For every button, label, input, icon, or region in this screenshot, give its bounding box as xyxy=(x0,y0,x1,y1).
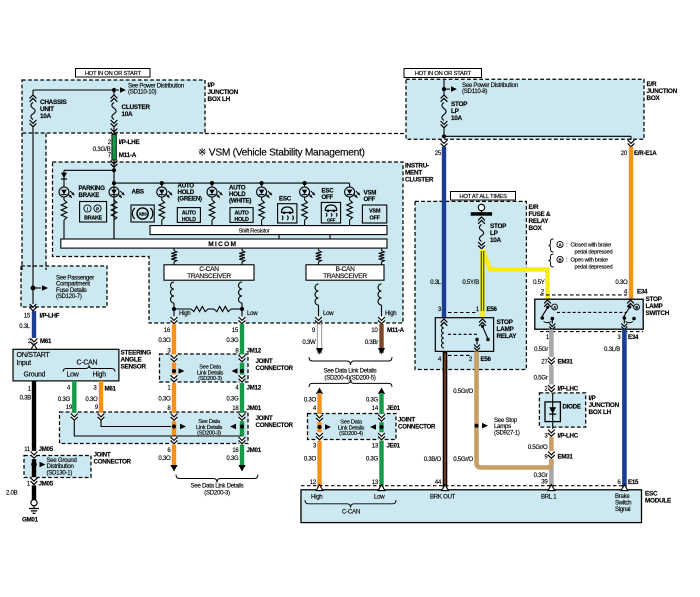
svg-text:(GREEN): (GREEN) xyxy=(178,196,202,203)
svg-text:RELAY: RELAY xyxy=(497,333,518,340)
svg-text:ESC: ESC xyxy=(279,196,292,203)
svg-text:BOX LH: BOX LH xyxy=(589,409,612,416)
svg-text:0.3L/B: 0.3L/B xyxy=(604,346,620,353)
svg-text:JOINT: JOINT xyxy=(256,358,273,365)
svg-text:0.5Y: 0.5Y xyxy=(533,279,545,286)
svg-text:EM31: EM31 xyxy=(558,359,574,366)
svg-text:0.3O: 0.3O xyxy=(85,396,98,403)
svg-text:0.5Gr/O: 0.5Gr/O xyxy=(453,456,473,463)
svg-text:10A: 10A xyxy=(490,237,502,244)
svg-text:Signal: Signal xyxy=(615,506,630,513)
svg-text:CHASSIS: CHASSIS xyxy=(40,99,67,106)
svg-text:0.3Br: 0.3Br xyxy=(365,339,378,346)
svg-text:JE01: JE01 xyxy=(387,443,401,450)
svg-text:AUTO: AUTO xyxy=(234,210,248,216)
svg-text:M I C O M: M I C O M xyxy=(208,241,236,248)
svg-text:BRAKE: BRAKE xyxy=(79,192,100,199)
svg-text:0.3O: 0.3O xyxy=(304,397,317,404)
svg-text:OFF: OFF xyxy=(369,216,380,222)
svg-text:AUTO: AUTO xyxy=(182,210,196,216)
svg-text:(SD120-7): (SD120-7) xyxy=(56,293,82,300)
svg-text:0.3G: 0.3G xyxy=(226,396,239,403)
svg-text:MODULE: MODULE xyxy=(645,498,672,505)
svg-text:HOLD: HOLD xyxy=(182,217,197,223)
svg-text:10: 10 xyxy=(371,327,378,334)
svg-text:27: 27 xyxy=(541,359,548,366)
svg-text:B: B xyxy=(559,257,562,262)
svg-text:14: 14 xyxy=(372,405,379,412)
svg-text:M61: M61 xyxy=(40,338,52,345)
svg-text:20: 20 xyxy=(621,150,628,157)
svg-text:Input: Input xyxy=(17,359,32,367)
svg-text:pedal depressed: pedal depressed xyxy=(575,264,613,270)
svg-text:25: 25 xyxy=(435,150,442,157)
svg-text:GM01: GM01 xyxy=(22,517,39,524)
svg-text:Closed with brake: Closed with brake xyxy=(571,243,612,249)
svg-text:JUNCTION: JUNCTION xyxy=(647,88,678,95)
svg-text:ABS: ABS xyxy=(132,189,144,196)
svg-text:Low: Low xyxy=(247,310,258,317)
svg-text:OFF: OFF xyxy=(327,218,336,223)
svg-text:10A: 10A xyxy=(451,115,463,122)
svg-text:E/R: E/R xyxy=(529,204,539,211)
svg-text:12: 12 xyxy=(310,479,317,486)
svg-text:ABS: ABS xyxy=(139,212,147,217)
svg-text:HOT IN ON OR START: HOT IN ON OR START xyxy=(415,71,472,77)
svg-text:C-CAN: C-CAN xyxy=(342,509,360,516)
svg-text:LP: LP xyxy=(451,108,460,115)
svg-text:E15: E15 xyxy=(628,479,639,486)
svg-text:E56: E56 xyxy=(481,356,492,363)
svg-text:0.3G: 0.3G xyxy=(226,455,239,462)
svg-text:CONNECTOR: CONNECTOR xyxy=(398,424,436,431)
svg-text:JUNCTION: JUNCTION xyxy=(589,402,620,409)
svg-text:(WHITE): (WHITE) xyxy=(229,198,251,205)
svg-text:Ground: Ground xyxy=(24,372,46,379)
svg-text:Shift Resistor: Shift Resistor xyxy=(238,228,269,234)
svg-text:B-CAN: B-CAN xyxy=(335,266,355,273)
svg-text:HOT AT ALL TIMES: HOT AT ALL TIMES xyxy=(459,194,507,200)
svg-text:EM31: EM31 xyxy=(558,454,574,461)
svg-text:HOT IN ON OR START: HOT IN ON OR START xyxy=(85,71,142,77)
svg-text:(SD110-10): (SD110-10) xyxy=(128,89,156,96)
svg-text:10A: 10A xyxy=(40,113,52,120)
svg-text:0.5Gr/O: 0.5Gr/O xyxy=(528,444,548,451)
svg-text:STOP: STOP xyxy=(646,296,663,303)
svg-text:0.3O: 0.3O xyxy=(304,456,317,463)
svg-text:16: 16 xyxy=(232,447,239,454)
svg-text:I/P-LHC: I/P-LHC xyxy=(558,433,579,440)
svg-text:ANGLE: ANGLE xyxy=(121,357,143,364)
svg-text:C-CAN: C-CAN xyxy=(199,266,219,273)
svg-text:※ VSM (Vehicle Stability Manag: ※ VSM (Vehicle Stability Management) xyxy=(198,148,365,159)
svg-text:E34: E34 xyxy=(637,289,648,296)
svg-text:FUSE &: FUSE & xyxy=(529,211,551,218)
svg-text:JM01: JM01 xyxy=(247,405,262,412)
svg-text:ON/START: ON/START xyxy=(17,351,51,359)
svg-text:JM01: JM01 xyxy=(247,447,262,454)
svg-text:15: 15 xyxy=(24,313,31,320)
svg-text:15: 15 xyxy=(232,327,239,334)
svg-text:(SD200-3): (SD200-3) xyxy=(197,431,221,437)
svg-text:LP: LP xyxy=(490,230,499,237)
svg-text:JOINT: JOINT xyxy=(94,452,111,459)
svg-text:TRANSCEIVER: TRANSCEIVER xyxy=(187,273,231,280)
svg-text:0.3G: 0.3G xyxy=(366,397,379,404)
svg-text:13: 13 xyxy=(372,479,379,486)
svg-text:0.3L: 0.3L xyxy=(430,279,442,286)
svg-text:0.3L: 0.3L xyxy=(19,323,31,330)
svg-text:BOX LH: BOX LH xyxy=(208,96,231,103)
svg-text:16: 16 xyxy=(164,327,171,334)
svg-text:STEERING: STEERING xyxy=(121,350,152,357)
svg-text:LAMP: LAMP xyxy=(497,326,515,333)
svg-text:High: High xyxy=(385,310,396,317)
svg-text:I/P-LHF: I/P-LHF xyxy=(40,313,60,320)
svg-text:I/P: I/P xyxy=(208,82,216,89)
svg-text:JM12: JM12 xyxy=(247,348,262,355)
svg-text:0.3O: 0.3O xyxy=(615,279,628,286)
svg-text:Low: Low xyxy=(374,494,385,501)
svg-text:RELAY: RELAY xyxy=(529,218,550,225)
svg-text:44: 44 xyxy=(435,479,442,486)
svg-text:UNIT: UNIT xyxy=(40,106,54,113)
svg-text:CONNECTOR: CONNECTOR xyxy=(256,422,294,429)
svg-text:E/R: E/R xyxy=(647,81,657,88)
svg-text:CONNECTOR: CONNECTOR xyxy=(256,365,294,372)
svg-text:High: High xyxy=(93,372,107,379)
svg-text:M11-A: M11-A xyxy=(119,152,137,159)
svg-text:CLUSTER: CLUSTER xyxy=(122,104,151,111)
svg-text:E34: E34 xyxy=(628,334,639,341)
svg-text:0.3B: 0.3B xyxy=(20,395,32,402)
svg-text:ESC: ESC xyxy=(645,491,658,498)
svg-text:Low: Low xyxy=(323,310,334,317)
svg-text:Open with brake: Open with brake xyxy=(571,258,608,264)
svg-text:High: High xyxy=(311,494,322,501)
svg-text:0.5Gr/O: 0.5Gr/O xyxy=(453,388,473,395)
svg-text:B: B xyxy=(635,305,638,310)
svg-text:0.5Gr: 0.5Gr xyxy=(534,375,548,382)
svg-text:VSM: VSM xyxy=(369,208,381,214)
svg-text:SENSOR: SENSOR xyxy=(121,364,147,371)
svg-text:(SD200-3): (SD200-3) xyxy=(204,490,230,497)
svg-text:C-CAN: C-CAN xyxy=(77,360,98,367)
svg-text:HOLD: HOLD xyxy=(234,217,249,223)
svg-text:TRANSCEIVER: TRANSCEIVER xyxy=(323,273,367,280)
svg-text:P: P xyxy=(96,207,99,212)
svg-text:2.0B: 2.0B xyxy=(6,490,18,497)
svg-text:0.3O: 0.3O xyxy=(158,396,171,403)
svg-text:JE01: JE01 xyxy=(387,405,401,412)
svg-text:OFF: OFF xyxy=(322,194,334,201)
svg-text:JM12: JM12 xyxy=(247,385,262,392)
svg-text:E56: E56 xyxy=(487,306,498,313)
svg-text:See Data Link Details: See Data Link Details xyxy=(191,483,244,490)
svg-text:0.5Y/B: 0.5Y/B xyxy=(462,279,479,286)
svg-text:A: A xyxy=(553,305,556,310)
svg-text:CLUSTER: CLUSTER xyxy=(405,177,434,184)
svg-text:JOINT: JOINT xyxy=(398,417,415,424)
svg-text:MENT: MENT xyxy=(405,170,422,177)
svg-text:BOX: BOX xyxy=(647,95,661,102)
svg-text:(SD927-1): (SD927-1) xyxy=(494,429,520,436)
svg-text:DIODE: DIODE xyxy=(563,404,581,411)
svg-text:0.3O: 0.3O xyxy=(158,337,171,344)
svg-text:BOX: BOX xyxy=(529,225,543,232)
svg-text:pedal depressed: pedal depressed xyxy=(575,249,613,255)
svg-text:(SD110-8): (SD110-8) xyxy=(462,88,487,95)
svg-text:SWITCH: SWITCH xyxy=(646,310,670,317)
svg-text:I/P-LHC: I/P-LHC xyxy=(558,386,579,393)
svg-text:(SD200-3): (SD200-3) xyxy=(198,376,222,382)
svg-text:0.3G: 0.3G xyxy=(226,337,239,344)
svg-text:See Data Link Details: See Data Link Details xyxy=(324,368,377,375)
svg-text:11: 11 xyxy=(24,446,31,453)
svg-text:STOP: STOP xyxy=(497,319,514,326)
svg-text:I/P-LHE: I/P-LHE xyxy=(119,139,141,146)
svg-text:0.3G: 0.3G xyxy=(58,396,71,403)
svg-text:(SD130-1): (SD130-1) xyxy=(47,469,73,476)
svg-text:0.3O: 0.3O xyxy=(158,455,171,462)
svg-text:10A: 10A xyxy=(122,111,134,118)
svg-text:High: High xyxy=(179,310,190,317)
svg-text:I/P: I/P xyxy=(589,395,597,402)
svg-text:(SD200-4): (SD200-4) xyxy=(339,431,363,437)
svg-text:0.5Gr: 0.5Gr xyxy=(534,346,548,353)
svg-text:BRL 1: BRL 1 xyxy=(541,494,557,501)
svg-text:JUNCTION: JUNCTION xyxy=(208,89,239,96)
svg-text:18: 18 xyxy=(232,405,239,412)
svg-text:CONNECTOR: CONNECTOR xyxy=(94,459,132,466)
svg-text:39: 39 xyxy=(541,478,548,485)
svg-text:LAMP: LAMP xyxy=(646,303,664,310)
svg-text:0.3G: 0.3G xyxy=(366,456,379,463)
svg-text:0.3W: 0.3W xyxy=(302,339,316,346)
svg-text:STOP: STOP xyxy=(451,101,468,108)
svg-text:M11-A: M11-A xyxy=(387,327,405,334)
svg-text:19: 19 xyxy=(66,404,73,411)
svg-text:STOP: STOP xyxy=(490,223,507,230)
svg-text:E/R-E1A: E/R-E1A xyxy=(634,150,657,157)
svg-text:JM05: JM05 xyxy=(39,481,54,488)
svg-text:JOINT: JOINT xyxy=(256,415,273,422)
svg-text:13: 13 xyxy=(372,443,379,450)
svg-text:M61: M61 xyxy=(105,386,117,393)
svg-text:INSTRU-: INSTRU- xyxy=(405,163,429,170)
svg-text:0.3B/O: 0.3B/O xyxy=(424,456,442,463)
svg-text:BRK OUT: BRK OUT xyxy=(430,494,456,501)
svg-text:OFF: OFF xyxy=(364,196,376,203)
svg-text:BRAKE: BRAKE xyxy=(84,216,102,222)
svg-text:Low: Low xyxy=(67,372,80,379)
svg-text:JM05: JM05 xyxy=(39,446,54,453)
